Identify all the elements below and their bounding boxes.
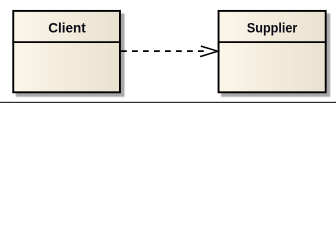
- Supplier title separator: [218, 41, 327, 43]
- class Supplier shadow: [221, 14, 330, 97]
- class Client shadow: [16, 14, 125, 97]
- class Client box: [13, 11, 120, 92]
- dependency open arrowhead: [200, 46, 218, 57]
- window bottom border line: [0, 102, 336, 103]
- dependency dashed line: [121, 50, 208, 52]
- Client title separator: [12, 41, 121, 43]
- svg-text:Supplier: Supplier: [247, 20, 298, 35]
- class Supplier box: [219, 11, 326, 92]
- svg-text:Client: Client: [48, 20, 86, 35]
